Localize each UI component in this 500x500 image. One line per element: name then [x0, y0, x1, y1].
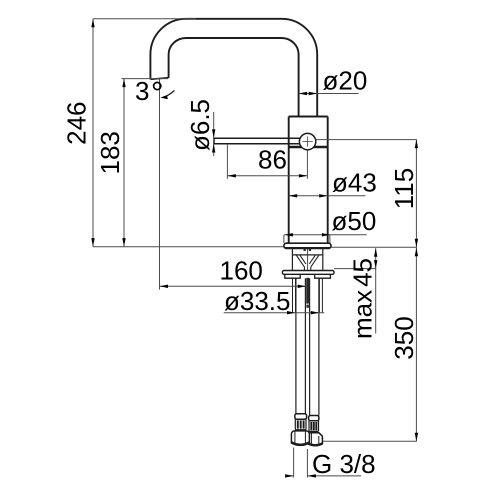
supply hose left — [296, 278, 306, 414]
extension line washer (max45) — [334, 268, 376, 270]
extension line bottom left (to flange) — [93, 246, 284, 248]
dimension line max 45 — [375, 248, 377, 333]
ball joint — [299, 133, 315, 149]
spout tube outer outline — [150, 19, 317, 117]
hose end fitting left — [291, 414, 309, 446]
svg-text:ø50: ø50 — [332, 206, 377, 236]
dimension dia 33.5 — [224, 312, 325, 314]
shank housing under flange — [292, 248, 322, 270]
spout outlet centerline — [159, 79, 161, 290]
base flange — [284, 243, 331, 248]
extension line bottom right (flange to 350/115) — [331, 246, 417, 248]
spout tube inner outline — [169, 38, 299, 117]
centre fixing rod — [306, 278, 309, 304]
hose funnel right — [309, 255, 319, 270]
extension lines G3/8 — [294, 448, 308, 478]
angle 3deg arc with arrowhead — [164, 91, 175, 98]
dimension 160 — [160, 285, 307, 287]
svg-text:ø43: ø43 — [332, 168, 377, 198]
svg-text:160: 160 — [220, 256, 263, 286]
extension line from ball (115) — [316, 139, 417, 141]
extension line below ball (86) — [306, 151, 308, 179]
hose end fitting right — [308, 416, 322, 446]
svg-text:ø20: ø20 — [323, 66, 368, 96]
extension line hose nut (350 bottom) — [322, 440, 417, 442]
mounting washer plate — [282, 271, 334, 275]
svg-text:ø33.5: ø33.5 — [224, 286, 291, 316]
svg-text:3: 3 — [135, 76, 149, 106]
handle lever rod — [214, 138, 301, 144]
dimension dia 20 — [299, 93, 359, 95]
dimension dia 6.5 upper arrow — [213, 112, 215, 138]
dimension G3/8 left arrow — [285, 475, 293, 477]
spout outlet bottom face — [150, 78, 168, 80]
body seam line under ball — [289, 146, 328, 148]
dimension dia 50 — [284, 234, 367, 236]
hose funnel left — [296, 255, 306, 270]
extension line handle end (86) — [226, 144, 228, 179]
svg-text:ø6.5: ø6.5 — [185, 99, 215, 151]
dimension line 86 — [227, 175, 307, 177]
extension line outlet bottom (183) — [122, 78, 169, 80]
svg-text:246: 246 — [62, 102, 92, 145]
dimension G3/8 right arrow and leader — [307, 475, 361, 477]
mounting stud left — [293, 278, 296, 312]
shank centre axis line — [307, 249, 309, 271]
dimension line 183 — [123, 79, 125, 247]
svg-text:115: 115 — [389, 168, 419, 209]
cartridge body — [289, 117, 328, 243]
dimension dia 6.5 lower arrow — [213, 144, 215, 156]
mounting stud right — [319, 278, 322, 312]
mounting nut left — [285, 274, 300, 278]
svg-text:350: 350 — [389, 316, 419, 359]
dimension line 246 — [92, 19, 94, 247]
mounting nut right — [315, 274, 331, 278]
svg-text:max45: max45 — [348, 258, 378, 339]
svg-text:183: 183 — [95, 131, 125, 174]
dimension line 350 — [415, 247, 417, 441]
extension line top (246) — [93, 18, 196, 20]
shank top tabs — [304, 249, 306, 251]
svg-text:G 3/8: G 3/8 — [312, 449, 376, 479]
dimension dia 43 — [289, 195, 366, 197]
svg-text:86: 86 — [258, 145, 287, 175]
supply hose right — [310, 278, 319, 415]
dimension line 115 — [415, 140, 417, 248]
